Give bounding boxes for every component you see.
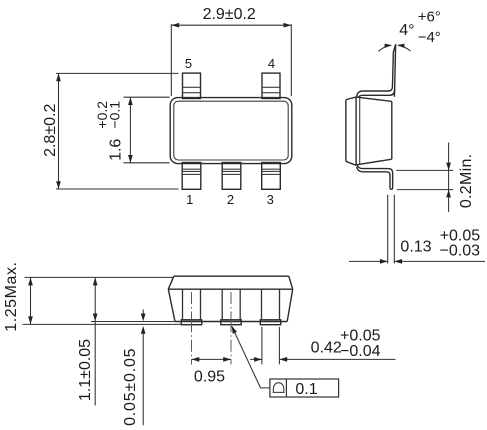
dimension 0.2 Min (lead standoff, side view) [396, 143, 475, 213]
dimension 0.13 +0.05/-0.03 (lead thickness) [349, 195, 485, 264]
dimension 0.05±0.05 (standoff) [122, 310, 146, 426]
side view upper (gull-wing up) lead [356, 44, 395, 98]
pin 3 (bottom-right lead, top view) [262, 163, 281, 190]
lead tip angle arc right [397, 43, 411, 51]
front view parting line [168, 288, 292, 290]
side view body bottom edge [356, 159, 392, 165]
front view top-left bevel [168, 276, 174, 289]
svg-text:4°: 4° [399, 22, 414, 39]
package body inner outline (top view) [174, 101, 288, 160]
side view body contour line [359, 98, 361, 165]
pin 2 (bottom-middle lead, top view) [222, 163, 241, 190]
front view lead 3 [262, 289, 280, 320]
front view lead 1 [183, 289, 201, 320]
dimension 1.1±0.05 (body thickness) [77, 278, 175, 406]
front view left edge [168, 289, 175, 321]
svg-text:0.13: 0.13 [400, 238, 431, 255]
svg-text:−4°: −4° [418, 29, 441, 46]
svg-text:−0.04: −0.04 [340, 343, 381, 360]
front view body bottom edge [175, 321, 287, 323]
dimension 2.8±0.2 (overall height, top view) [42, 73, 179, 189]
svg-text:0.95: 0.95 [194, 368, 225, 385]
svg-text:2.8±0.2: 2.8±0.2 [42, 104, 59, 157]
svg-text:0.42: 0.42 [311, 340, 342, 357]
pin 4 (top-right lead, top view) [262, 73, 280, 98]
dimension 0.42 +0.05/-0.04 (lead width) [250, 327, 395, 364]
dimension 1.25 Max (overall height) [3, 261, 182, 331]
lead tip angle arc left [378, 43, 392, 51]
svg-text:0.1: 0.1 [295, 381, 317, 398]
svg-text:3: 3 [267, 192, 274, 207]
svg-text:−0.1: −0.1 [107, 101, 123, 129]
svg-text:4: 4 [268, 56, 275, 71]
centerline lead 1 [191, 292, 193, 365]
svg-text:2.9±0.2: 2.9±0.2 [203, 6, 256, 23]
side view body top edge [356, 97, 392, 101]
front view foot 2 [221, 320, 241, 325]
package body outer outline (top view) [170, 98, 292, 164]
svg-text:2: 2 [227, 192, 234, 207]
svg-text:1.25Max.: 1.25Max. [3, 261, 20, 331]
svg-text:−0.03: −0.03 [440, 242, 481, 259]
front view top-right bevel [289, 276, 293, 289]
pin 5 (top-left lead, top view) [183, 73, 201, 98]
svg-text:1: 1 [186, 192, 193, 207]
side view left end face [346, 97, 356, 165]
dimension 1.6 +0.2/-0.1 (body height, top view) [94, 97, 170, 163]
svg-text:0.2Min.: 0.2Min. [458, 154, 475, 209]
svg-text:1.6: 1.6 [107, 139, 124, 161]
svg-text:+0.05: +0.05 [340, 327, 381, 344]
svg-text:+6°: +6° [418, 9, 441, 26]
dimension 2.9±0.2 (body width) [171, 6, 291, 96]
coplanarity feature control frame [270, 379, 339, 397]
front view lead 2 [222, 289, 240, 320]
svg-text:1.1±0.05: 1.1±0.05 [77, 339, 94, 401]
seating plane symbol (dome) [273, 383, 285, 393]
front view body top edge [174, 275, 289, 277]
side view left face right edge [355, 97, 357, 165]
side view body right edge [391, 101, 393, 159]
dimension 0.95 (lead pitch) [192, 357, 232, 385]
front view foot 3 [260, 320, 280, 325]
coplanarity leader line [229, 325, 269, 388]
centerline lead 2 [230, 292, 232, 365]
side view upper lead tip outer edge continuation [393, 89, 395, 97]
front view right edge [287, 289, 293, 321]
front view foot 1 [181, 320, 201, 325]
svg-text:0.05±0.05: 0.05±0.05 [122, 348, 139, 426]
pin 1 (bottom-left lead, top view) [182, 163, 201, 190]
side view lower (gull-wing down) lead [357, 164, 393, 189]
svg-text:5: 5 [185, 56, 192, 71]
